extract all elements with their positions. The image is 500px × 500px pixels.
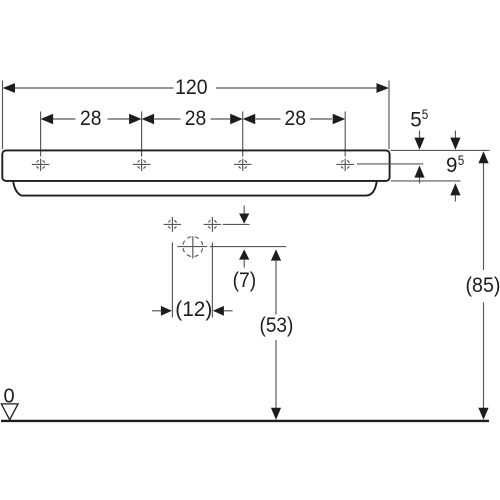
svg-text:28: 28 [285, 107, 307, 130]
dimension 5.5 up arrow [414, 166, 424, 184]
dimension 120 right arrowhead [377, 83, 390, 93]
label 9.5 [446, 152, 464, 177]
extension line tap hole 1 [40, 112, 42, 157]
dimension 120 line [14, 87, 377, 89]
dimension 12 right arrow [213, 306, 233, 316]
drain circle [183, 237, 203, 257]
dimension 9.5 up arrow [450, 183, 460, 201]
top edge reference line right [391, 149, 490, 151]
fixing hole cross left [164, 217, 182, 232]
fixing hole cross right [204, 217, 222, 232]
edge bottom reference line right [391, 180, 461, 182]
drain reference line [210, 246, 286, 248]
dimension 85 down arrowhead [478, 408, 488, 420]
dimension 7 down arrow [239, 206, 249, 224]
dimension 28 third line [256, 118, 333, 120]
extension line left of 12 [171, 242, 173, 317]
datum triangle [1, 404, 18, 420]
dimension 85 up arrowhead [478, 151, 488, 163]
svg-text:(85): (85) [466, 274, 500, 297]
extension line tap hole 3 [242, 112, 244, 157]
extension line left of 120 [2, 81, 4, 150]
tap hole mark 3 [234, 159, 252, 172]
svg-text:5: 5 [410, 108, 421, 131]
extension line right of 12 [211, 242, 213, 317]
svg-text:(53): (53) [260, 314, 294, 337]
drain crosshair horizontal [177, 246, 207, 248]
dimension 12 left arrow [152, 306, 172, 316]
dimension 28 first left arrowhead [41, 114, 54, 124]
extension line tap hole 2 [141, 112, 143, 157]
dimension 28 first line [53, 118, 130, 120]
svg-text:5: 5 [458, 152, 465, 168]
extension line tap hole 4 [344, 112, 346, 157]
fixing hole reference line [223, 223, 250, 225]
tap hole mark 1 [32, 159, 50, 172]
svg-text:(12): (12) [175, 298, 212, 321]
svg-text:(7): (7) [233, 269, 257, 292]
dimension 9.5 down arrow [450, 131, 460, 150]
extension line right of 120 [388, 81, 390, 150]
dimension 5.5 down arrow [414, 131, 424, 150]
washbasin apron [13, 181, 377, 195]
svg-text:5: 5 [422, 106, 429, 122]
dimension 53 down arrow [271, 340, 281, 420]
dimension 28 third left arrowhead [243, 114, 256, 124]
floor line [1, 420, 489, 422]
dimension 28 third right arrowhead [333, 114, 346, 124]
svg-text:9: 9 [446, 154, 457, 177]
label 5.5 [410, 106, 428, 131]
dimension 85 vertical line [483, 163, 485, 409]
dimension 28 second left arrowhead [142, 114, 155, 124]
svg-text:28: 28 [185, 107, 207, 130]
drain crosshair vertical [192, 236, 194, 258]
svg-text:120: 120 [175, 76, 208, 99]
tap hole mark 4 [336, 159, 354, 172]
svg-text:28: 28 [80, 107, 102, 130]
dimension 28 second line [155, 118, 231, 120]
tap hole reference line right [357, 163, 423, 165]
dimension 28 second right arrowhead [230, 114, 243, 124]
tap hole mark 2 [133, 159, 151, 172]
dimension 53 up arrow [271, 249, 281, 314]
dimension 28 first right arrowhead [129, 114, 142, 124]
washbasin outline top [2, 150, 389, 181]
dimension 120 left arrowhead [3, 83, 16, 93]
dimension 7 up arrow [239, 249, 249, 267]
